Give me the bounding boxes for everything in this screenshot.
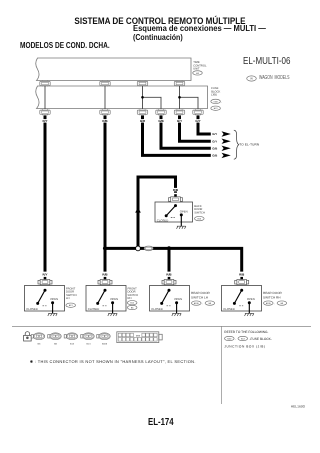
svg-text:G/B: G/B [212, 154, 217, 158]
svg-text:G/R: G/R [140, 119, 146, 123]
svg-text:CLOSED: CLOSED [26, 307, 38, 311]
svg-text:G/Y: G/Y [212, 139, 217, 143]
svg-text:OPEN: OPEN [50, 297, 58, 301]
svg-text:M30: M30 [136, 335, 141, 338]
svg-text:B105: B105 [102, 342, 108, 345]
svg-text:G/Y: G/Y [212, 132, 217, 136]
svg-text:REAR DOOR: REAR DOOR [263, 291, 283, 295]
svg-text:R/Y: R/Y [42, 273, 47, 277]
svg-text:,: , [202, 302, 203, 305]
svg-text:W: W [250, 76, 253, 80]
svg-text:G/B: G/B [158, 119, 164, 123]
svg-text:LH: LH [66, 297, 69, 300]
svg-text:B6: B6 [38, 342, 41, 345]
svg-text:JUNCTION BOX (J/B): JUNCTION BOX (J/B) [224, 345, 265, 349]
svg-text:G/Y: G/Y [177, 119, 182, 123]
svg-text:CLOSED: CLOSED [223, 307, 235, 311]
svg-text:,: , [235, 338, 236, 341]
svg-text:-FUSE BLOCK-: -FUSE BLOCK- [250, 337, 272, 341]
svg-text:OPEN: OPEN [174, 297, 182, 301]
svg-text:TO EL-TURN: TO EL-TURN [239, 143, 259, 147]
svg-text:CLOSED: CLOSED [88, 307, 100, 311]
svg-text:RH: RH [128, 297, 132, 300]
svg-text:REFER TO THE FOLLOWING.: REFER TO THE FOLLOWING. [224, 330, 268, 334]
svg-text:SWITCH RH: SWITCH RH [263, 295, 281, 299]
svg-text:B13: B13 [70, 342, 75, 345]
svg-text:UNIT: UNIT [193, 68, 200, 71]
svg-text:CLOSED: CLOSED [157, 218, 169, 222]
svg-text:R/B: R/B [102, 119, 108, 123]
svg-text:,: , [222, 101, 223, 104]
svg-text:R/B: R/B [239, 273, 245, 277]
svg-text:CLOSED: CLOSED [151, 307, 163, 311]
svg-text:SWITCH: SWITCH [194, 211, 205, 214]
svg-text:B14: B14 [87, 342, 92, 345]
svg-text:R/B: R/B [102, 273, 108, 277]
svg-text:B105: B105 [266, 302, 272, 305]
svg-text:OPEN: OPEN [247, 297, 255, 301]
svg-text:G/B: G/B [212, 147, 217, 151]
svg-text:OPEN: OPEN [110, 297, 118, 301]
svg-text:✱ : THIS CONNECTOR IS NOT SHOW: ✱ : THIS CONNECTOR IS NOT SHOWN IN "HARN… [30, 359, 196, 364]
svg-text:,: , [274, 302, 275, 305]
svg-text:(J/B): (J/B) [211, 94, 217, 97]
svg-text:SWITCH LH: SWITCH LH [191, 295, 208, 299]
svg-text:HEL169D: HEL169D [291, 405, 306, 409]
svg-text:B105: B105 [194, 302, 200, 305]
svg-text:G/Y: G/Y [195, 119, 200, 123]
svg-text:REAR DOOR: REAR DOOR [191, 291, 211, 295]
svg-text:R/Y: R/Y [42, 119, 47, 123]
svg-text:R/B: R/B [173, 188, 179, 192]
svg-text:OPEN: OPEN [180, 209, 188, 213]
svg-text:R/B: R/B [166, 273, 172, 277]
svg-text:B8: B8 [54, 342, 57, 345]
